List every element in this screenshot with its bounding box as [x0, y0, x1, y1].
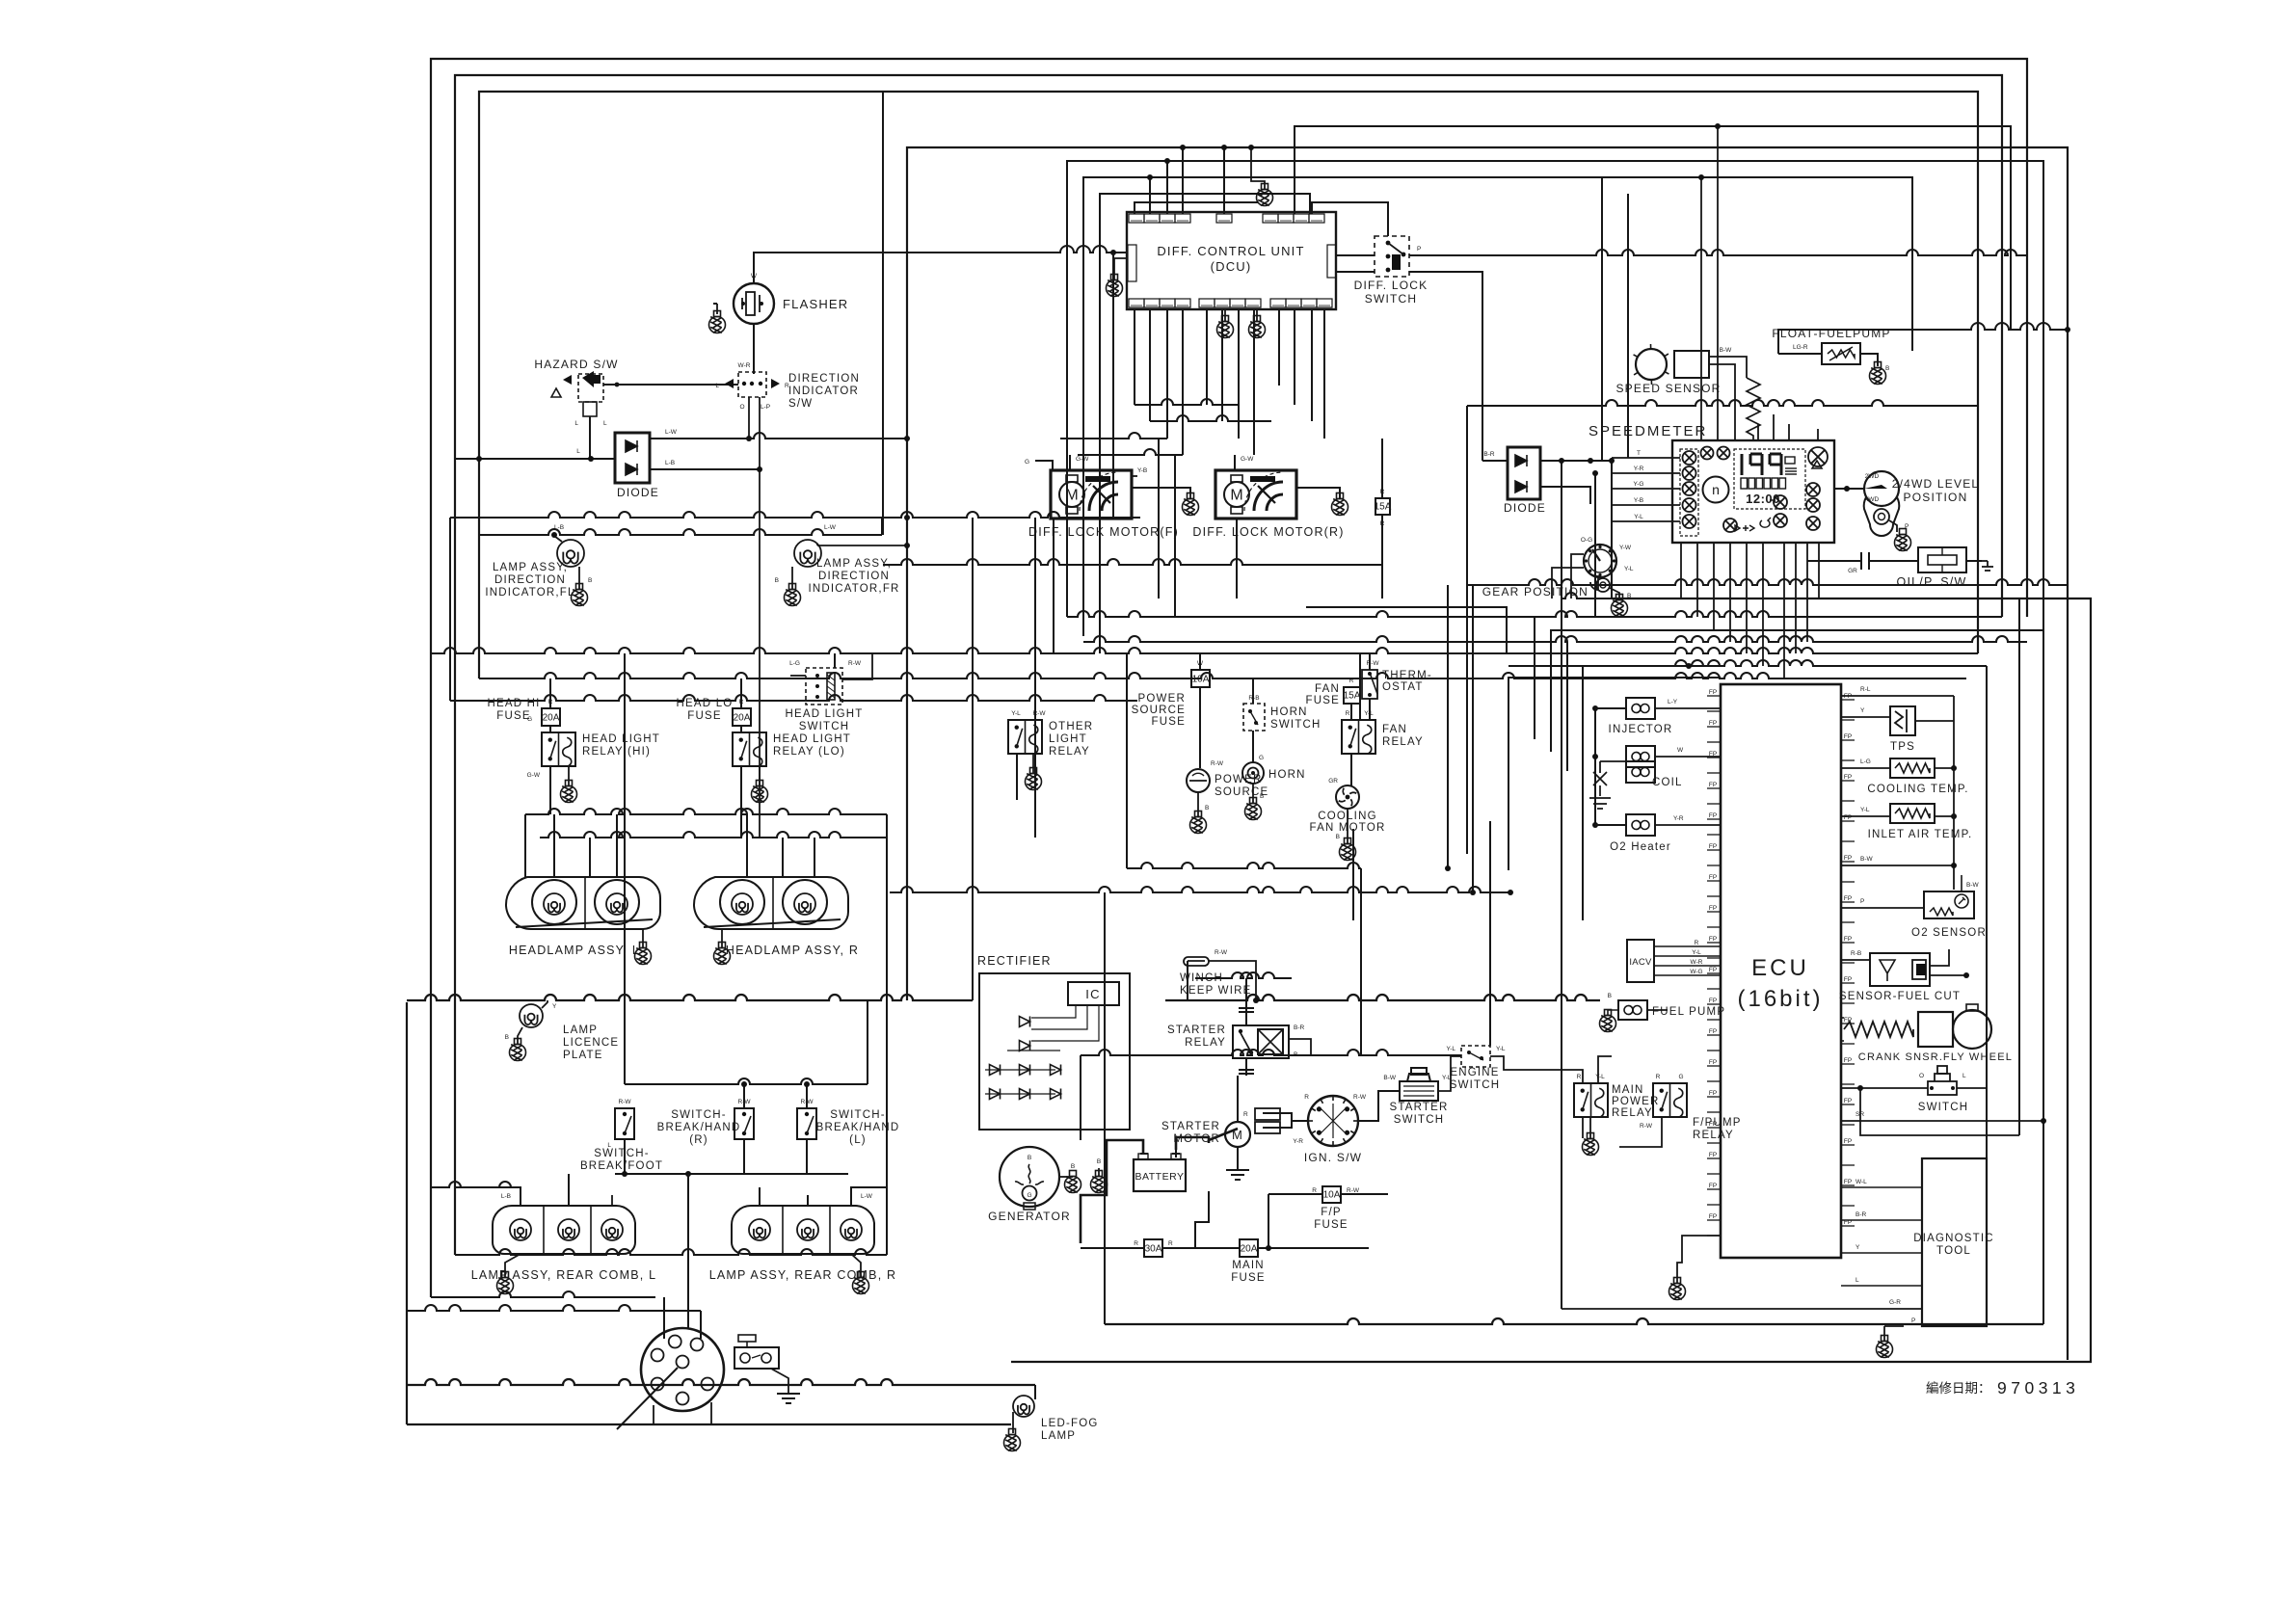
- svg-text:G: G: [1259, 755, 1264, 761]
- ground oil sw: [1978, 561, 1993, 571]
- svg-text:LED-FOG: LED-FOG: [1041, 1418, 1099, 1429]
- wire bus y678: [431, 648, 1978, 653]
- ground gear position: [1612, 595, 1628, 617]
- wire winch: [1209, 961, 1256, 1000]
- svg-text:L-B: L-B: [501, 1193, 511, 1200]
- svg-text:FUSE: FUSE: [687, 710, 721, 722]
- speedmeter top lamps: [1701, 447, 1714, 460]
- svg-text:Y: Y: [552, 1003, 557, 1010]
- svg-text:FP: FP: [1844, 895, 1852, 902]
- svg-text:THERM-: THERM-: [1382, 670, 1432, 681]
- svg-text:SR: SR: [1855, 1111, 1864, 1118]
- svg-text:Y: Y: [1860, 707, 1865, 714]
- svg-text:SOURCE: SOURCE: [1132, 705, 1186, 716]
- svg-text:FP: FP: [1709, 1028, 1717, 1035]
- starter motor: [1225, 1122, 1250, 1147]
- svg-text:LAMP: LAMP: [563, 1024, 598, 1036]
- svg-text:R-W: R-W: [619, 1099, 632, 1105]
- fuel pump: [1618, 1000, 1647, 1020]
- wire right vertical x1500 group: [1447, 585, 1449, 868]
- wire speedmeter left pins: [1612, 457, 1680, 459]
- svg-text:MOTOR: MOTOR: [1173, 1133, 1220, 1145]
- wire bottom-left vertical: [406, 1002, 408, 1424]
- svg-text:R-W: R-W: [1353, 1094, 1367, 1101]
- wire dcu top stubs: [1149, 177, 1151, 214]
- wire diode2 verticals: [1561, 461, 1562, 599]
- svg-text:G: G: [1027, 1192, 1031, 1199]
- speedmeter box: [1672, 440, 1834, 543]
- svg-text:FAN: FAN: [1315, 683, 1340, 695]
- wire second loop: [455, 75, 2002, 1255]
- svg-text:FP: FP: [1709, 936, 1717, 943]
- wire vertical x1283 motor R down: [1236, 519, 1238, 599]
- ground motor R: [1332, 493, 1348, 516]
- ground 24wd: [1895, 529, 1911, 551]
- svg-text:B-R: B-R: [1294, 1024, 1305, 1031]
- svg-text:B-W: B-W: [1383, 1075, 1397, 1081]
- wire fp fuse: [1268, 1193, 1322, 1195]
- wire combo lower: [653, 1405, 654, 1424]
- svg-text:GEAR POSITION: GEAR POSITION: [1482, 585, 1589, 599]
- wire bus y704: [479, 673, 1966, 678]
- fan relay: [1342, 720, 1375, 754]
- ground rear L: [497, 1272, 514, 1294]
- combination switch connector: [734, 1347, 779, 1369]
- svg-text:RECTIFIER: RECTIFIER: [977, 954, 1052, 968]
- wire fan column: [1350, 754, 1352, 785]
- wire horn column: [1252, 731, 1254, 762]
- svg-text:LICENCE: LICENCE: [563, 1037, 619, 1049]
- svg-text:20A: 20A: [1241, 1244, 1258, 1255]
- svg-text:FP: FP: [1844, 1057, 1852, 1064]
- wire bottom bus y1374: [1105, 1318, 2043, 1324]
- fp fuse: [1322, 1186, 1341, 1203]
- wire diode2 right: [1540, 460, 1612, 462]
- thermostat: [1362, 670, 1377, 699]
- svg-text:HEADLAMP ASSY, R: HEADLAMP ASSY, R: [726, 944, 859, 957]
- svg-text:L: L: [603, 420, 607, 427]
- wire mid verticals A: [972, 720, 974, 1000]
- ground rear R: [853, 1272, 869, 1294]
- svg-text:B-W: B-W: [1860, 856, 1874, 863]
- svg-text:FP: FP: [1709, 1213, 1717, 1220]
- wire DCU bottom verticals: [1134, 309, 1135, 405]
- wire oil sw: [1807, 560, 1852, 562]
- wire vertical x1093: [1053, 519, 1055, 653]
- svg-text:L-P: L-P: [761, 404, 770, 411]
- svg-text:Y: Y: [1855, 1244, 1860, 1251]
- wire fuel pump: [1647, 1009, 1668, 1011]
- wire speedmeter left pin verticals: [1611, 458, 1613, 599]
- wire gear position leads: [1571, 554, 1584, 599]
- wire bus y607: [1467, 579, 2068, 585]
- svg-text:O: O: [1919, 1073, 1924, 1079]
- rectifier box: [979, 973, 1130, 1130]
- wire ign sw: [1292, 1120, 1308, 1122]
- wire diode2 left: [1482, 460, 1508, 462]
- wire fog lamp feed: [407, 1379, 1035, 1385]
- svg-text:W-R: W-R: [1691, 959, 1703, 966]
- wire bus y727: [450, 695, 1137, 701]
- wire injector col left: [1594, 708, 1596, 825]
- svg-text:R-W: R-W: [1640, 1123, 1653, 1130]
- ground generator 2: [1091, 1171, 1108, 1193]
- svg-text:G-W: G-W: [1076, 456, 1089, 463]
- 2/4WD level position: [1864, 471, 1899, 506]
- svg-text:STARTER: STARTER: [1161, 1121, 1220, 1132]
- speedmeter right lamps: [1806, 483, 1820, 496]
- wire flasher to direction sw: [713, 303, 717, 305]
- svg-text:M: M: [1230, 488, 1242, 504]
- svg-text:B: B: [1336, 834, 1340, 840]
- wire verticals headlight feed: [549, 678, 551, 708]
- wire ecu sr line: [1841, 1120, 2043, 1122]
- switch break hand L: [797, 1108, 816, 1139]
- svg-text:DIRECTION: DIRECTION: [494, 574, 566, 586]
- svg-text:20A: 20A: [734, 713, 751, 724]
- wire loops above DCU: [1067, 161, 2043, 1324]
- svg-text:(R): (R): [689, 1134, 708, 1146]
- svg-text:2/4WD LEVEL: 2/4WD LEVEL: [1892, 477, 1980, 491]
- svg-text:Y-L: Y-L: [1595, 1074, 1605, 1080]
- svg-text:4WD: 4WD: [1865, 496, 1880, 503]
- svg-text:R: R: [1346, 710, 1350, 717]
- svg-text:15A: 15A: [1344, 691, 1361, 702]
- svg-text:R-B: R-B: [1851, 950, 1861, 957]
- svg-text:G-W: G-W: [1241, 456, 1254, 463]
- ground flasher: [709, 311, 726, 333]
- svg-text:R-W: R-W: [1211, 760, 1224, 767]
- sensor fuel cut: [1870, 953, 1930, 986]
- svg-text:R-W: R-W: [1033, 710, 1047, 717]
- wire bus y537: [450, 512, 883, 518]
- svg-text:FUEL PUMP: FUEL PUMP: [1652, 1006, 1725, 1018]
- svg-text:FLY WHEEL: FLY WHEEL: [1943, 1051, 2013, 1063]
- svg-text:DIRECTION: DIRECTION: [788, 373, 860, 385]
- wire rear comb feeds: [455, 1187, 521, 1206]
- fuse 30A: [1144, 1239, 1162, 1257]
- wire diode out L-B: [650, 468, 760, 470]
- svg-text:DIRECTION: DIRECTION: [818, 571, 890, 582]
- wire speedmeter top stubs: [1700, 177, 1702, 440]
- ground combo switch: [777, 1394, 800, 1403]
- wire speedmeter enclosure: [1466, 406, 1468, 854]
- svg-text:IACV: IACV: [1629, 957, 1652, 968]
- svg-text:B-W: B-W: [1966, 882, 1980, 889]
- svg-text:FP: FP: [1709, 720, 1717, 727]
- IACV: [1627, 940, 1654, 982]
- svg-text:BREAK/HAND: BREAK/HAND: [657, 1122, 741, 1133]
- svg-text:T: T: [1637, 450, 1641, 457]
- wire vertical x916: [882, 92, 884, 535]
- svg-text:W-L: W-L: [1855, 1179, 1867, 1185]
- svg-text:FP: FP: [1709, 967, 1717, 973]
- speedmeter lcd box: [1734, 449, 1805, 509]
- head hi fuse: [542, 708, 560, 726]
- wire o2 sensor: [1841, 907, 1924, 909]
- svg-text:F/PUMP: F/PUMP: [1693, 1117, 1742, 1129]
- svg-text:編修日期：: 編修日期：: [1926, 1381, 1991, 1396]
- ground starter motor: [1226, 1170, 1249, 1180]
- speedmeter lamp column: [1680, 449, 1698, 536]
- svg-text:Y-G: Y-G: [1634, 481, 1644, 488]
- wire starter relay column: [1245, 978, 1247, 1008]
- wire dcu to diff lock switch: [1336, 254, 1375, 256]
- wire bus y1038: [407, 995, 973, 1000]
- svg-text:HEAD LIGHT: HEAD LIGHT: [785, 708, 863, 720]
- svg-text:Y-W: Y-W: [1619, 545, 1632, 551]
- svg-text:L-Y: L-Y: [1668, 699, 1678, 705]
- svg-text:R: R: [1304, 1094, 1309, 1101]
- wire bus right band: [1127, 863, 1361, 868]
- wire 20A main: [1195, 1247, 1240, 1249]
- svg-text:G-W: G-W: [527, 772, 541, 779]
- o2 heater: [1626, 814, 1655, 836]
- svg-text:Y-R: Y-R: [1634, 466, 1644, 472]
- svg-text:B-R: B-R: [1483, 451, 1495, 458]
- svg-text:COIL: COIL: [1652, 777, 1683, 788]
- headlamp assy blob: [506, 877, 660, 929]
- wire left verticals upper: [449, 518, 451, 701]
- power source fuse: [1191, 670, 1210, 687]
- ground ecu bottom: [1669, 1278, 1686, 1300]
- wire verticals from y955: [1080, 1055, 1081, 1140]
- ground fuel pump: [1600, 1010, 1616, 1032]
- TPS: [1890, 706, 1915, 735]
- svg-text:P: P: [1911, 1317, 1915, 1324]
- ground headlamp R: [714, 943, 731, 965]
- ECU box: [1721, 684, 1841, 1258]
- main power relay: [1574, 1083, 1608, 1117]
- svg-text:SWITCH: SWITCH: [1394, 1114, 1445, 1126]
- DCU pin boxes bottom: [1129, 299, 1144, 307]
- cooling temp: [1890, 758, 1935, 778]
- wire vertical x1689: [1627, 194, 1629, 458]
- ground DCU left: [1107, 275, 1123, 297]
- svg-text:B: B: [1260, 793, 1264, 800]
- svg-text:Y-R: Y-R: [1673, 815, 1684, 822]
- svg-text:FP: FP: [1709, 1090, 1717, 1097]
- svg-text:F/P: F/P: [1321, 1207, 1342, 1218]
- svg-text:B-R: B-R: [1855, 1211, 1867, 1218]
- wire break switch top bus: [625, 1078, 868, 1084]
- svg-text:FP: FP: [1709, 1183, 1717, 1189]
- DCU pin boxes right: [1327, 245, 1336, 278]
- combination switch arm: [617, 1368, 678, 1429]
- svg-text:P: P: [1905, 523, 1909, 530]
- svg-text:FUSE: FUSE: [1306, 695, 1340, 706]
- svg-text:L: L: [1962, 1073, 1966, 1079]
- wire vertical x1202: [1158, 439, 1160, 599]
- wire motor F pins: [1132, 475, 1137, 477]
- inlet air temp: [1890, 804, 1935, 823]
- horn switch: [1243, 704, 1265, 731]
- starter relay: [1233, 1025, 1289, 1058]
- svg-text:FP: FP: [1844, 814, 1852, 821]
- svg-text:SWITCH: SWITCH: [1450, 1079, 1501, 1091]
- ground other relay: [1026, 768, 1042, 790]
- wire 30A: [1081, 1247, 1144, 1249]
- wire hazard down to diode: [589, 416, 591, 459]
- svg-text:FP: FP: [1844, 733, 1852, 740]
- svg-text:SPEEDMETER: SPEEDMETER: [1589, 423, 1707, 439]
- svg-text:10A: 10A: [1192, 675, 1210, 685]
- coil: [1626, 746, 1655, 767]
- svg-text:INDICATOR,FR: INDICATOR,FR: [808, 583, 899, 595]
- wire hazard to dir sw: [603, 384, 738, 386]
- svg-text:FP: FP: [1709, 843, 1717, 850]
- svg-text:R-W: R-W: [848, 660, 862, 667]
- svg-text:FAN: FAN: [1382, 724, 1407, 735]
- ground relay HI: [561, 781, 577, 803]
- svg-text:GR: GR: [1328, 778, 1338, 785]
- horn: [1242, 762, 1264, 784]
- wire top bus y153: [907, 147, 2068, 1360]
- wire bottom lamp feed: [407, 1423, 1011, 1425]
- svg-text:FP: FP: [1709, 782, 1717, 788]
- svg-text:RELAY: RELAY: [1049, 746, 1090, 758]
- svg-text:Y-L: Y-L: [1860, 807, 1870, 813]
- switch break foot: [615, 1108, 634, 1139]
- wire starter relay to ign: [1289, 1039, 1311, 1055]
- ground diag: [1877, 1336, 1893, 1358]
- diff lock motor R: [1215, 470, 1296, 519]
- ground float fuelpump: [1870, 362, 1886, 385]
- wire crank snsr: [1841, 1017, 1844, 1019]
- sensor loop box: [1508, 678, 1721, 870]
- svg-text:INJECTOR: INJECTOR: [1609, 724, 1673, 735]
- svg-text:POSITION: POSITION: [1904, 491, 1968, 504]
- rectifier diodes: [1020, 1017, 1030, 1027]
- svg-text:FP: FP: [1709, 998, 1717, 1004]
- ground motor F: [1183, 493, 1199, 516]
- svg-text:SWITCH: SWITCH: [1918, 1102, 1969, 1113]
- wire motors top feeds: [1069, 455, 1071, 470]
- wire speedmeter bottom stubs: [1680, 543, 1682, 599]
- head light relay LO: [733, 732, 766, 766]
- wire diode out L-W: [650, 433, 907, 439]
- wire combo feeds: [663, 1297, 665, 1339]
- head lo fuse: [733, 708, 751, 726]
- svg-text:B: B: [1071, 1163, 1075, 1170]
- speed sensor: [1636, 349, 1667, 380]
- svg-text:HORN: HORN: [1268, 769, 1306, 781]
- wire diag gr: [1562, 1308, 1922, 1310]
- svg-text:R-W: R-W: [1347, 1187, 1360, 1194]
- wire sensor common: [1953, 696, 1955, 890]
- svg-text:DIFF. LOCK: DIFF. LOCK: [1354, 279, 1428, 292]
- svg-text:HEAD LO: HEAD LO: [677, 698, 734, 709]
- ground headlamp L: [635, 943, 652, 965]
- svg-text:O2 SENSOR: O2 SENSOR: [1911, 927, 1987, 939]
- crank sensor fly wheel: [1844, 1022, 1913, 1037]
- wire bus y537 extend: [883, 512, 1140, 518]
- DCU pin boxes top: [1129, 214, 1144, 223]
- wire bus y555: [479, 529, 882, 535]
- svg-text:L-G: L-G: [1860, 758, 1871, 765]
- svg-text:FP: FP: [1709, 1059, 1717, 1066]
- winch keep wire: [1184, 957, 1209, 966]
- cooling fan motor: [1336, 785, 1359, 809]
- svg-text:FP: FP: [1709, 812, 1717, 819]
- wire coil out: [1655, 756, 1721, 758]
- wire headlamp bus: [525, 809, 887, 814]
- ground horn: [1245, 798, 1262, 820]
- svg-text:ECU: ECU: [1751, 955, 1809, 981]
- ignition switch: [1308, 1096, 1358, 1146]
- svg-text:Y-L: Y-L: [1011, 710, 1021, 717]
- diff control unit DCU box: [1127, 212, 1336, 309]
- svg-text:DIODE: DIODE: [617, 486, 659, 499]
- float-fuelpump: [1822, 343, 1860, 364]
- svg-text:S/W: S/W: [788, 398, 813, 410]
- svg-text:SPEED SENSOR: SPEED SENSOR: [1615, 382, 1721, 395]
- svg-text:OTHER: OTHER: [1049, 721, 1093, 732]
- wire dir sw pin O: [748, 397, 750, 439]
- svg-text:B: B: [1028, 1155, 1031, 1161]
- svg-text:LAMP ASSY,: LAMP ASSY,: [493, 562, 568, 573]
- ground main power relay: [1583, 1133, 1599, 1156]
- svg-text:HEAD LIGHT: HEAD LIGHT: [773, 733, 851, 745]
- svg-text:FP: FP: [1844, 774, 1852, 781]
- svg-text:FLASHER: FLASHER: [783, 297, 848, 311]
- wire vertical x1662: [1601, 177, 1603, 461]
- lamp assy direction indicator FL: [557, 540, 584, 567]
- diagnostic tool: [1922, 1158, 1987, 1326]
- svg-text:R-W: R-W: [1367, 660, 1380, 667]
- engine switch: [1461, 1046, 1490, 1067]
- ground lamp FL: [572, 584, 588, 606]
- svg-text:W-G: W-G: [1690, 969, 1702, 975]
- svg-text:20A: 20A: [543, 713, 560, 724]
- svg-text:15A: 15A: [1375, 502, 1392, 513]
- svg-text:L-B: L-B: [665, 460, 675, 466]
- svg-text:PLATE: PLATE: [563, 1050, 603, 1061]
- svg-text:R: R: [548, 699, 553, 705]
- wire cooling temp: [1841, 767, 1890, 769]
- wire bus y640: [1067, 611, 2002, 617]
- svg-text:(L): (L): [849, 1134, 867, 1146]
- other light relay: [1008, 720, 1042, 754]
- svg-text:FUSE: FUSE: [1314, 1219, 1348, 1231]
- speedmeter lcd small row: [1741, 478, 1786, 489]
- ground relay LO: [752, 781, 768, 803]
- svg-text:L: L: [574, 420, 578, 427]
- svg-text:OIL/P. S/W: OIL/P. S/W: [1897, 575, 1967, 589]
- wire motor feed horizontals: [1135, 399, 1239, 405]
- svg-text:BATTERY: BATTERY: [1135, 1171, 1185, 1183]
- svg-text:G-R: G-R: [1889, 1299, 1901, 1306]
- svg-text:B: B: [505, 1034, 509, 1041]
- svg-text:DIFF. LOCK MOTOR(F): DIFF. LOCK MOTOR(F): [1028, 525, 1179, 539]
- svg-text:B-W: B-W: [1720, 347, 1733, 354]
- lamp assy direction indicator FR: [794, 540, 821, 567]
- svg-text:P: P: [1860, 898, 1864, 905]
- svg-text:R: R: [1695, 940, 1699, 946]
- svg-text:G: G: [1025, 459, 1029, 466]
- svg-text:L: L: [1855, 1277, 1859, 1284]
- wire rear bus lines: [431, 1291, 655, 1297]
- svg-text:FP: FP: [1709, 689, 1717, 696]
- wire iacv: [1654, 945, 1721, 947]
- svg-text:FP: FP: [1844, 976, 1852, 983]
- svg-text:Y-R: Y-R: [1293, 1138, 1303, 1145]
- wire relay row feeds: [1582, 1117, 1584, 1138]
- svg-text:OSTAT: OSTAT: [1382, 681, 1424, 693]
- lamp assy rear comb: [732, 1206, 874, 1254]
- oil pressure switch: [1852, 552, 1879, 570]
- svg-text:GENERATOR: GENERATOR: [988, 1210, 1071, 1223]
